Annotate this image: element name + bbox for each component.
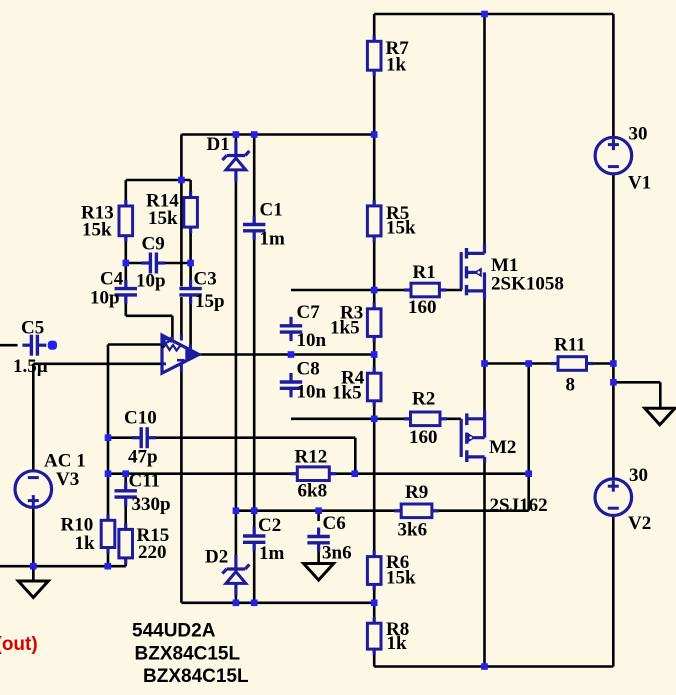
- svg-text:1k5: 1k5: [332, 383, 362, 404]
- svg-text:C4: C4: [100, 269, 124, 290]
- svg-text:R1: R1: [413, 262, 436, 283]
- svg-text:10n: 10n: [297, 330, 327, 351]
- svg-text:3n6: 3n6: [322, 543, 352, 564]
- svg-text:C3: C3: [194, 269, 217, 290]
- svg-text:544UD2A: 544UD2A: [132, 620, 216, 641]
- svg-text:1k5: 1k5: [330, 318, 360, 339]
- svg-text:C10: C10: [124, 408, 157, 429]
- svg-text:15k: 15k: [386, 218, 416, 239]
- svg-text:C6: C6: [323, 513, 346, 534]
- svg-text:V1: V1: [628, 173, 651, 194]
- svg-text:C9: C9: [142, 234, 165, 255]
- svg-text:V3: V3: [56, 469, 79, 490]
- svg-text:BZX84C15L: BZX84C15L: [143, 666, 249, 687]
- svg-text:15p: 15p: [195, 291, 225, 312]
- svg-text:R2: R2: [412, 389, 435, 410]
- svg-text:C2: C2: [258, 515, 281, 536]
- svg-text:1m: 1m: [259, 543, 285, 564]
- svg-text:6k8: 6k8: [298, 481, 328, 502]
- svg-text:1k: 1k: [386, 55, 407, 76]
- svg-text:47p: 47p: [128, 447, 158, 468]
- svg-text:D1: D1: [207, 134, 230, 155]
- svg-text:C1: C1: [260, 200, 283, 221]
- svg-text:R12: R12: [295, 447, 328, 468]
- svg-text:10p: 10p: [90, 288, 120, 309]
- svg-text:1k: 1k: [75, 533, 96, 554]
- svg-text:2SK1058: 2SK1058: [491, 274, 564, 295]
- svg-text:220: 220: [138, 542, 167, 563]
- svg-text:10p: 10p: [136, 271, 166, 292]
- svg-text:1m: 1m: [260, 229, 286, 250]
- svg-text:C8: C8: [297, 359, 320, 380]
- svg-text:2SJ162: 2SJ162: [490, 495, 548, 516]
- svg-text:R9: R9: [405, 482, 428, 503]
- svg-text:15k: 15k: [386, 567, 416, 588]
- svg-text:BZX84C15L: BZX84C15L: [135, 643, 241, 664]
- svg-text:330p: 330p: [132, 494, 171, 515]
- svg-text:30: 30: [629, 124, 648, 145]
- svg-text:(out): (out): [0, 634, 38, 655]
- svg-text:10n: 10n: [297, 382, 327, 403]
- svg-text:C5: C5: [21, 318, 44, 339]
- svg-text:3k6: 3k6: [398, 520, 428, 541]
- svg-text:V2: V2: [628, 513, 651, 534]
- svg-text:15k: 15k: [82, 220, 112, 241]
- svg-text:160: 160: [408, 297, 437, 318]
- svg-text:15k: 15k: [148, 208, 178, 229]
- svg-text:1.5µ: 1.5µ: [13, 356, 48, 377]
- svg-text:C11: C11: [129, 471, 161, 492]
- svg-text:30: 30: [629, 465, 648, 486]
- svg-text:D2: D2: [205, 547, 228, 568]
- svg-text:C7: C7: [297, 302, 321, 323]
- svg-text:160: 160: [409, 427, 438, 448]
- svg-text:8: 8: [566, 375, 576, 396]
- svg-text:R11: R11: [554, 335, 586, 356]
- svg-text:M2: M2: [489, 437, 516, 458]
- svg-text:1k: 1k: [387, 633, 408, 654]
